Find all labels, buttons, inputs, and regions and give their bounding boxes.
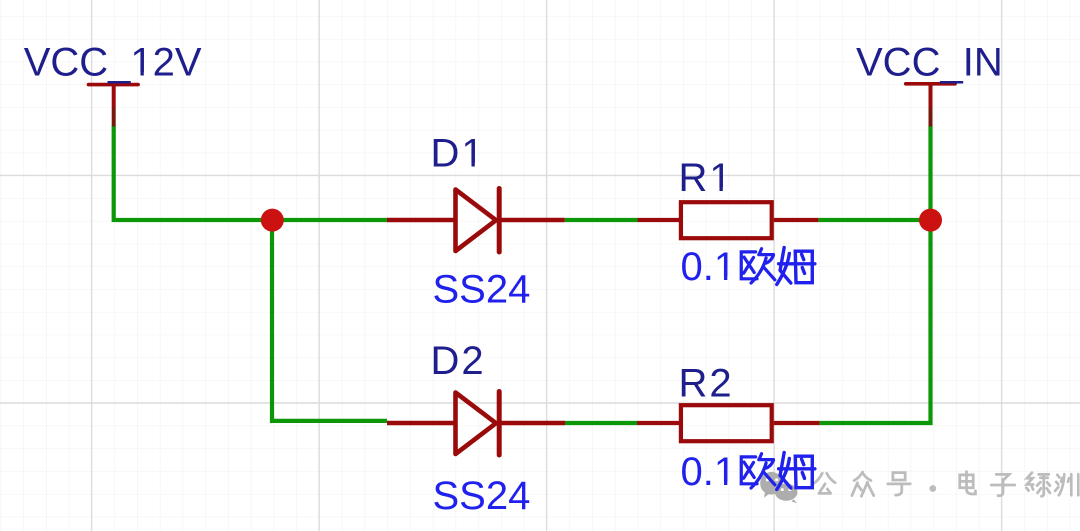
junction node A (261, 209, 284, 232)
resistor R1 (638, 202, 819, 238)
wire: VCC_12V leg vertical+horizontal to node A (112, 126, 272, 220)
label 0.1欧姆 (R1) (681, 245, 815, 289)
label 0.1欧姆 (R2) (681, 450, 815, 494)
wire: node A down to bottom row (272, 220, 387, 423)
watermark text 公众号·电子绿洲 (814, 472, 1078, 497)
svg-text:D1: D1 (431, 132, 486, 176)
wire: R1 right to node B (green) (818, 218, 930, 222)
diode D1 (387, 189, 565, 253)
wire: R2 right to node B corner (820, 220, 931, 425)
resistor R2 (637, 405, 820, 441)
svg-text:SS24: SS24 (433, 474, 531, 518)
junction node B (919, 209, 942, 232)
wire: node A to D1 anode (green) (272, 218, 387, 222)
watermark icon (speech bubbles) (760, 472, 797, 503)
wire: VCC_IN leg vertical (928, 126, 932, 220)
svg-text:VCC_IN: VCC_IN (856, 41, 1003, 85)
svg-text:D2: D2 (431, 339, 486, 383)
diode D2 (387, 392, 565, 456)
watermark separator dot (929, 485, 936, 492)
svg-text:R1: R1 (679, 156, 734, 200)
svg-text:VCC_12V: VCC_12V (24, 41, 202, 85)
wire: D2 cathode to R2 (green middle) (565, 421, 637, 425)
svg-text:0.1: 0.1 (681, 245, 737, 289)
svg-text:0.1: 0.1 (681, 450, 737, 494)
digit-1 serif covers (132, 72, 735, 486)
power symbol VCC_IN (906, 84, 955, 127)
svg-text:SS24: SS24 (433, 268, 531, 312)
svg-text:R2: R2 (679, 362, 734, 406)
power symbol VCC_12V (89, 85, 139, 127)
wire: D1 cathode to R1 (green middle) (565, 218, 638, 222)
